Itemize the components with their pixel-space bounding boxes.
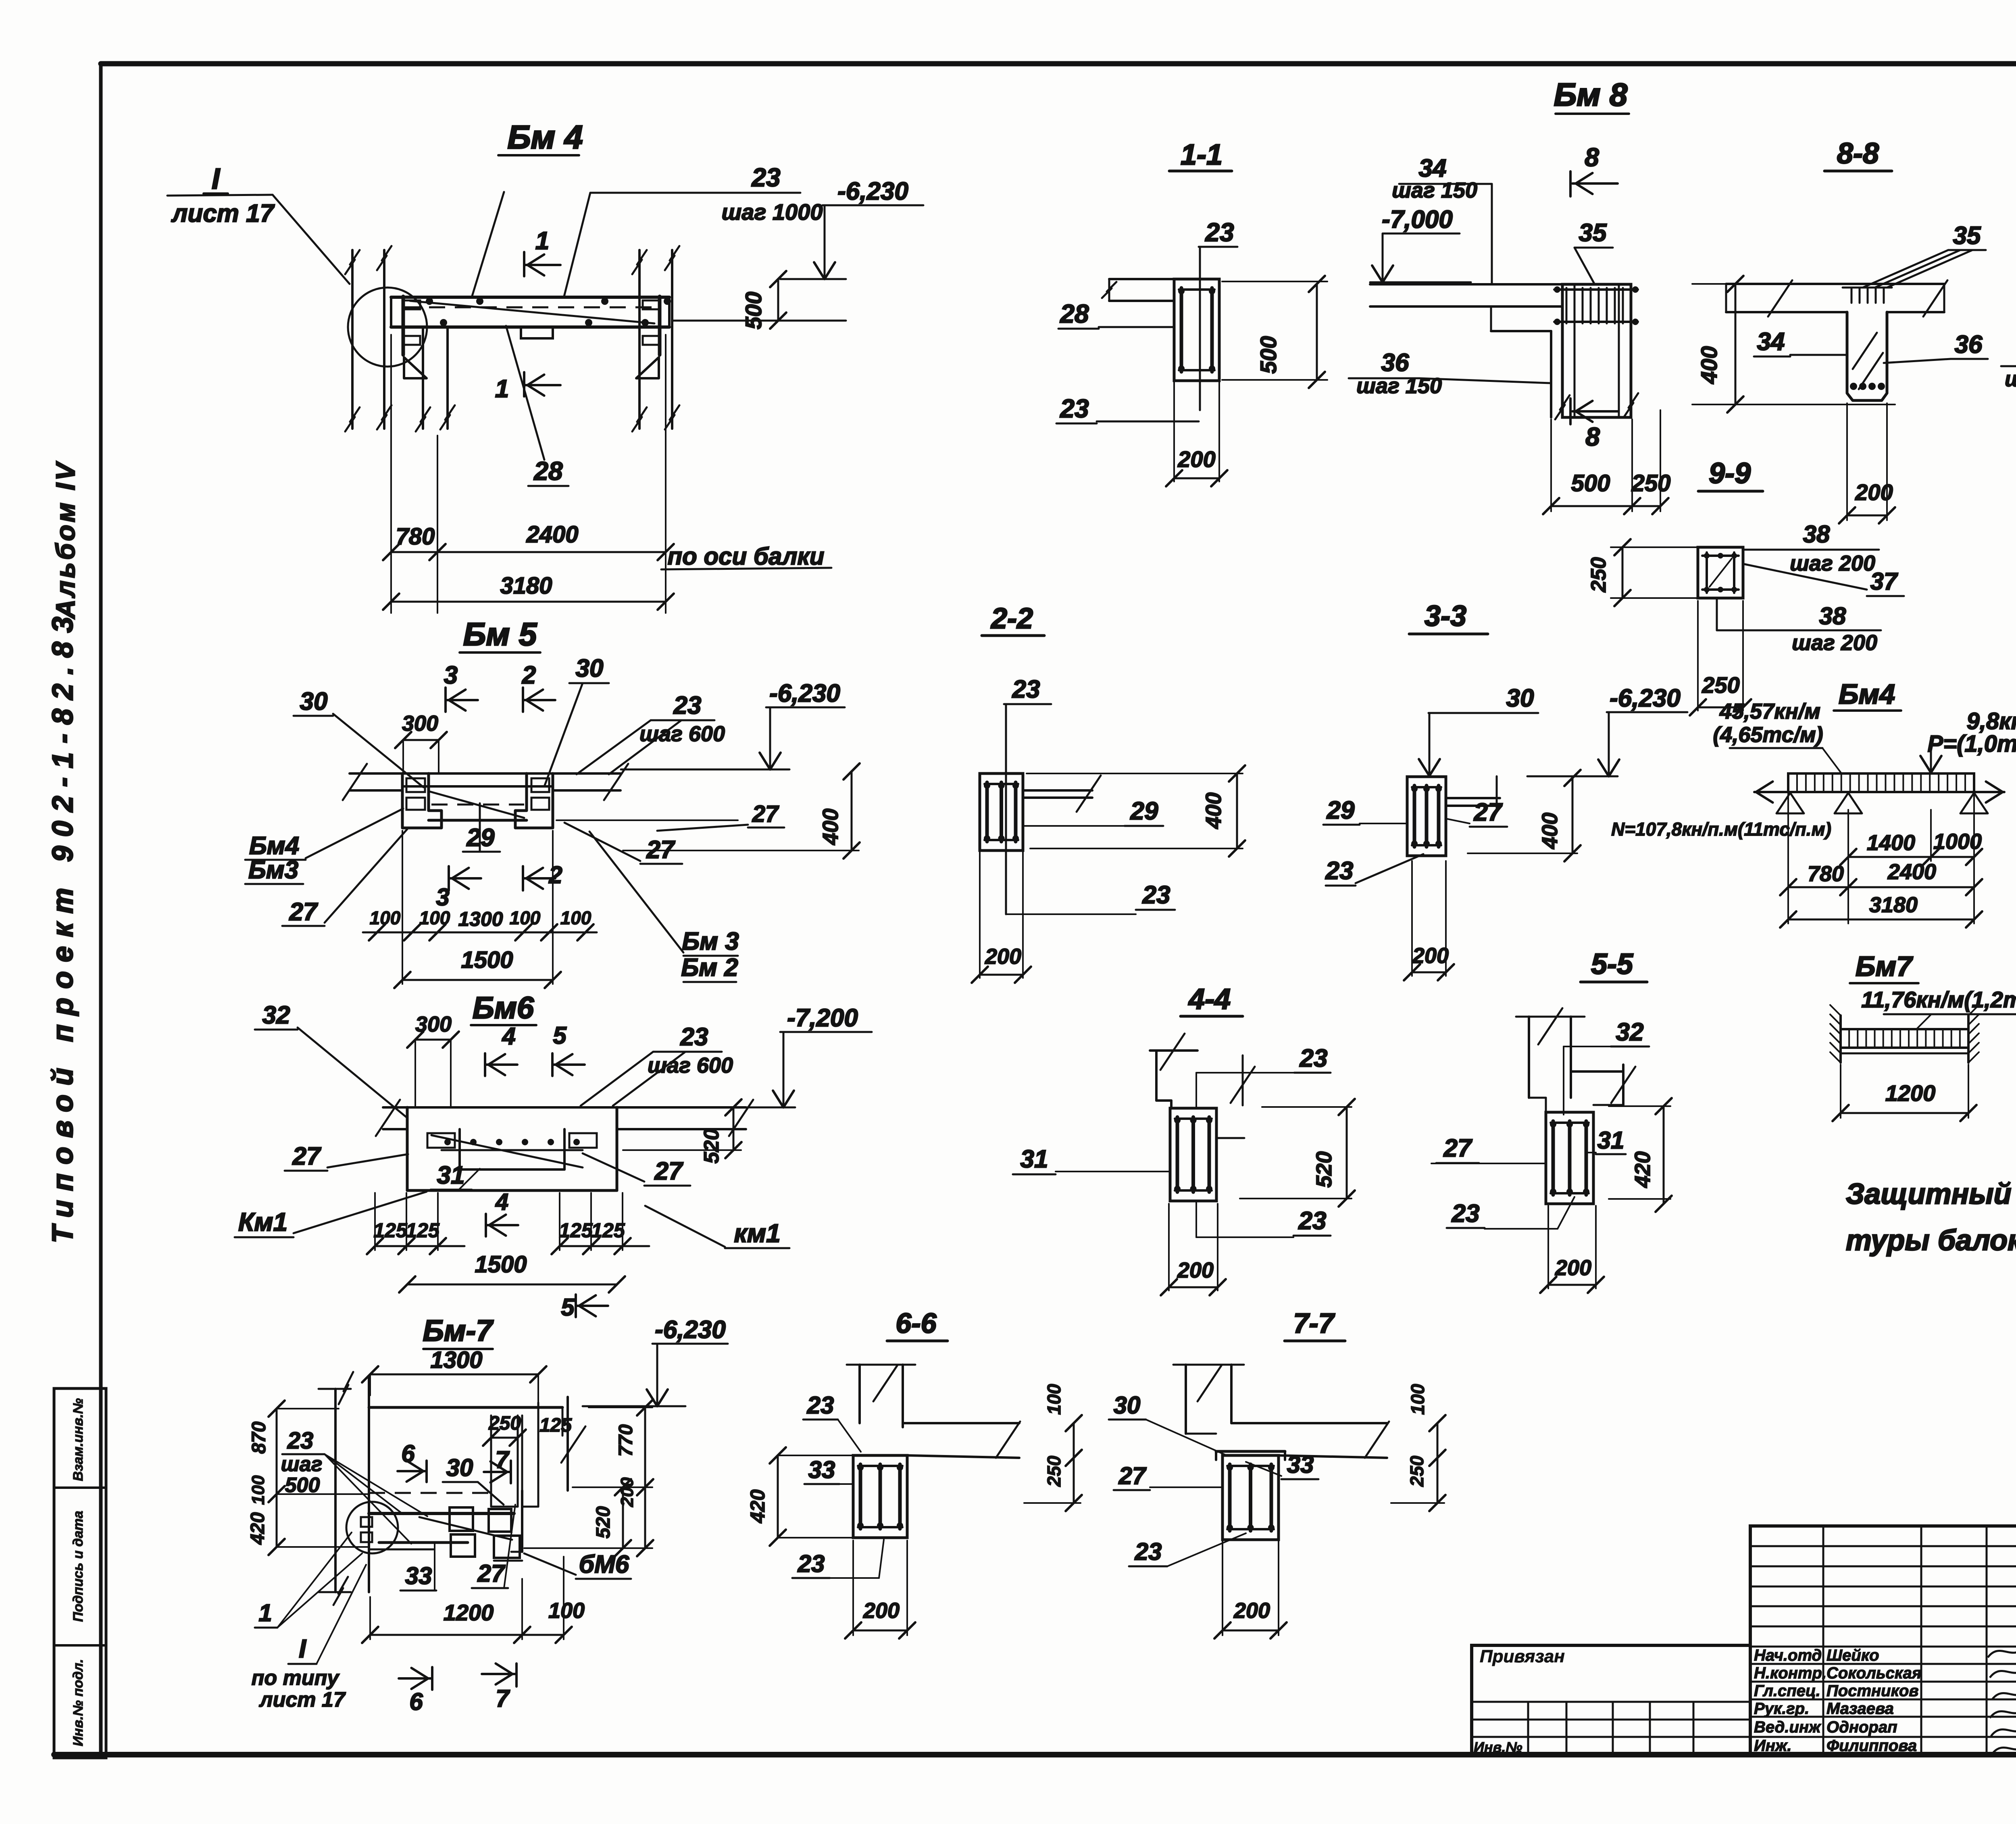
svg-text:7: 7: [496, 1685, 510, 1712]
svg-text:29: 29: [1327, 796, 1355, 824]
svg-text:23: 23: [287, 1428, 314, 1454]
svg-text:8-8: 8-8: [1837, 138, 1879, 170]
svg-text:11,76кн/м(1,2тс/м): 11,76кн/м(1,2тс/м): [1861, 987, 2016, 1012]
svg-text:34: 34: [1757, 328, 1785, 356]
svg-text:200: 200: [1177, 446, 1215, 472]
label 35 of 8-8: [1863, 222, 1986, 288]
dimension 300 of Бм6: [407, 1012, 459, 1106]
svg-text:780: 780: [396, 523, 435, 550]
svg-text:-7,000: -7,000: [1382, 206, 1453, 233]
svg-text:30: 30: [446, 1454, 473, 1481]
title section 8-8: [1824, 138, 1892, 171]
svg-text:шаг: шаг: [281, 1453, 323, 1476]
svg-text:400: 400: [818, 809, 843, 845]
section mark 3 top of Бм5: [444, 661, 478, 712]
label 1 of Бм-7: [255, 1532, 362, 1628]
svg-text:250: 250: [1406, 1455, 1427, 1487]
svg-text:45,57кн/м: 45,57кн/м: [1719, 699, 1820, 723]
level mark -7,000: [1370, 206, 1471, 282]
svg-text:27: 27: [289, 898, 318, 926]
label 27 of 7-7: [1114, 1462, 1223, 1490]
column section of 5-5: [1546, 1112, 1593, 1204]
column of Бм8 with rebar: [1554, 284, 1639, 419]
svg-text:100: 100: [560, 907, 591, 928]
svg-text:2400: 2400: [1887, 860, 1936, 884]
svg-text:-6,230: -6,230: [837, 177, 908, 205]
svg-text:200: 200: [985, 944, 1021, 969]
label 23 top of 1-1: [1199, 218, 1237, 410]
dimensions 770 200 520 right of Бм-7: [524, 1399, 653, 1556]
svg-text:3: 3: [436, 884, 449, 911]
beam body of Бм6: [407, 1107, 617, 1190]
svg-text:лист 17: лист 17: [171, 200, 275, 227]
dimension 200 of 1-1: [1166, 381, 1227, 486]
svg-text:27: 27: [1474, 798, 1503, 826]
label 23 top of 4-4: [1196, 1044, 1331, 1107]
svg-text:23: 23: [1060, 394, 1089, 423]
svg-text:200: 200: [1233, 1599, 1270, 1623]
label 37 of 9-9: [1745, 564, 1904, 596]
section mark 7 bottom of Бм-7: [482, 1663, 516, 1712]
svg-text:27: 27: [292, 1142, 321, 1170]
dimension 400 of 2-2: [1027, 765, 1245, 857]
svg-text:520: 520: [593, 1506, 614, 1538]
dimension 1500 of Бм5: [394, 831, 561, 988]
svg-text:520: 520: [1312, 1151, 1336, 1188]
svg-text:4-4: 4-4: [1188, 983, 1231, 1015]
svg-text:Постников: Постников: [1826, 1682, 1918, 1700]
label 31 of 5-5: [1586, 1127, 1626, 1154]
svg-text:Подпись и дата: Подпись и дата: [71, 1511, 86, 1622]
inner support lines below Бм4: [416, 327, 455, 432]
level mark -6,230 on Бм4: [780, 177, 923, 279]
step notch left of Бм8 column: [1491, 306, 1551, 417]
svg-text:780: 780: [1808, 862, 1844, 886]
dimension 200 of 6-6: [845, 1540, 915, 1638]
svg-text:870: 870: [248, 1422, 270, 1454]
dimension 200 of 3-3: [1404, 861, 1454, 980]
beam stem of 8-8: [1843, 288, 1892, 400]
svg-text:1-1: 1-1: [1181, 139, 1223, 171]
svg-text:23: 23: [673, 692, 702, 719]
svg-text:200: 200: [1177, 1258, 1214, 1282]
svg-text:Сокольская: Сокольская: [1826, 1664, 1921, 1682]
svg-text:125: 125: [539, 1415, 572, 1436]
svg-text:Вед.инж: Вед.инж: [1754, 1718, 1822, 1736]
label 29 of 2-2: [1024, 797, 1163, 826]
svg-text:3: 3: [444, 661, 458, 689]
section mark 4 top of Бм6: [485, 1023, 517, 1076]
svg-text:1: 1: [258, 1599, 272, 1626]
label 30 of 3-3: [1419, 684, 1538, 776]
leader 23 шаг 1000 on Бм4: [472, 163, 823, 297]
svg-text:Бм3: Бм3: [248, 856, 298, 884]
svg-text:шаг 600: шаг 600: [648, 1053, 733, 1078]
label 27 far right of Бм5: [657, 801, 784, 831]
svg-text:400: 400: [1696, 346, 1722, 384]
svg-text:37: 37: [1870, 568, 1898, 595]
label 33 of Бм-7: [400, 1544, 436, 1591]
label 36 of 8-8: [1884, 331, 1988, 363]
label 23 bottom of 4-4: [1196, 1201, 1331, 1237]
svg-text:400: 400: [1538, 813, 1562, 849]
svg-text:Привязан: Привязан: [1480, 1647, 1565, 1666]
svg-text:400: 400: [1202, 792, 1226, 829]
bottom-left stamp column: [54, 1388, 106, 1758]
dimension 200 of 8-8: [1839, 403, 1895, 523]
svg-text:3-3: 3-3: [1425, 600, 1466, 632]
label 23 bottom of 2-2: [1006, 881, 1175, 914]
svg-text:Нач.отд: Нач.отд: [1754, 1647, 1822, 1664]
svg-text:шаг 200: шаг 200: [2005, 367, 2016, 391]
label 30 left of Бм5: [294, 688, 423, 787]
section mark 5 bottom of Бм6: [561, 1294, 608, 1321]
dimension row 100 100 1300 100 100 of Бм5: [363, 907, 597, 940]
svg-text:36: 36: [1955, 331, 1983, 359]
dimension 250 bottom of 9-9: [1690, 601, 1751, 715]
svg-text:35: 35: [1953, 222, 1981, 250]
svg-text:23: 23: [1300, 1044, 1328, 1072]
slab of 7-7: [1186, 1422, 1389, 1458]
svg-text:4: 4: [502, 1023, 515, 1050]
label 27 of Бм-7: [472, 1505, 515, 1588]
svg-text:30: 30: [1114, 1392, 1141, 1419]
svg-text:Бм4: Бм4: [249, 832, 299, 860]
svg-text:23: 23: [751, 163, 780, 192]
svg-text:33: 33: [808, 1456, 835, 1483]
bearing plate right end of Бм4: [636, 296, 660, 378]
svg-text:23: 23: [1325, 857, 1354, 885]
scheme Бм4 beam with load: [1754, 773, 2016, 813]
slab of Бм8: [1370, 284, 1562, 306]
svg-text:I: I: [299, 1634, 306, 1663]
svg-text:шаг 200: шаг 200: [1790, 551, 1875, 575]
notch 250 125 of Бм-7: [483, 1403, 572, 1507]
dimensions 870 100 420 left of Бм-7: [247, 1401, 368, 1555]
svg-text:Однорап: Однорап: [1826, 1718, 1897, 1736]
svg-text:1: 1: [535, 227, 549, 255]
left margin text Типовой проект 902-1-82.83: [47, 608, 79, 1243]
svg-text:1300: 1300: [430, 1347, 482, 1373]
scheme Бм7 load label: [1861, 987, 2016, 1028]
svg-text:-6,230: -6,230: [769, 680, 840, 707]
svg-text:420: 420: [247, 1512, 269, 1545]
title section 6-6: [887, 1307, 948, 1341]
svg-text:Мазаева: Мазаева: [1826, 1700, 1894, 1718]
svg-text:бМ6: бМ6: [579, 1551, 629, 1578]
svg-text:Инв.№ подл.: Инв.№ подл.: [71, 1659, 86, 1747]
svg-text:2-2: 2-2: [990, 602, 1033, 635]
detail circle on Бм4 left end: [348, 288, 427, 367]
svg-text:7-7: 7-7: [1293, 1307, 1335, 1339]
svg-text:100: 100: [548, 1599, 585, 1623]
svg-text:3180: 3180: [500, 573, 552, 599]
svg-text:Шейко: Шейко: [1826, 1647, 1879, 1664]
svg-text:5: 5: [553, 1022, 567, 1049]
slab of Бм6: [376, 1100, 753, 1136]
svg-text:-6,230: -6,230: [655, 1316, 726, 1344]
label I по типу лист 17 of Бм-7: [252, 1565, 366, 1711]
svg-text:27: 27: [752, 801, 779, 827]
svg-text:2: 2: [522, 661, 536, 689]
svg-text:Гл.спец.: Гл.спец.: [1754, 1682, 1820, 1700]
svg-text:35: 35: [1579, 219, 1607, 247]
label 31 of 4-4: [1013, 1145, 1170, 1174]
label 23 bottom of 7-7: [1129, 1533, 1246, 1566]
title section 1-1: [1169, 139, 1232, 171]
svg-text:2: 2: [548, 861, 562, 888]
column section of 6-6: [853, 1455, 907, 1538]
wall of 5-5: [1516, 1008, 1585, 1112]
label 31 of Бм6: [431, 1161, 480, 1190]
label 27 left of Бм5: [282, 829, 407, 926]
svg-text:32: 32: [1616, 1018, 1644, 1046]
svg-text:Защитный слой бетона для рабоч: Защитный слой бетона для рабочей арма-: [1846, 1178, 2016, 1210]
svg-text:23: 23: [1205, 218, 1234, 247]
svg-text:шаг 200: шаг 200: [1792, 631, 1877, 655]
leader 28 on Бм4: [506, 326, 569, 486]
scheme Бм4 dimensions 1400 1000: [1840, 830, 1982, 865]
label 23 top of 6-6: [803, 1392, 861, 1452]
section mark 7 top of Бм-7: [484, 1446, 511, 1483]
title section 7-7: [1285, 1307, 1345, 1341]
svg-text:шаг 150: шаг 150: [1356, 374, 1442, 398]
svg-text:200: 200: [1412, 944, 1449, 968]
svg-text:шаг 150: шаг 150: [1392, 178, 1477, 202]
section mark 8 top: [1570, 143, 1618, 196]
label Бм3 Бм2 right: [589, 832, 739, 982]
label 30 top right of Бм5: [544, 655, 609, 786]
label 23 шаг 500 of Бм-7: [281, 1428, 427, 1544]
right end blocks of Бм-7: [450, 1490, 522, 1561]
label 27 right of Бм5: [564, 823, 682, 864]
svg-text:32: 32: [262, 1001, 290, 1029]
step right of 5-5: [1571, 1065, 1635, 1105]
label 23 bottom of 5-5: [1447, 1197, 1574, 1229]
dimension 300 of Бм5: [395, 711, 447, 773]
svg-text:8: 8: [1585, 422, 1600, 451]
label 32 left of Бм6: [255, 1001, 407, 1118]
label 34 шаг 150: [1392, 154, 1492, 284]
scheme Бм4 axial force label: [1611, 819, 1831, 840]
dimension row 125 125 125 125 of Бм6: [367, 1193, 649, 1254]
svg-text:Бм-7: Бм-7: [423, 1314, 494, 1347]
svg-text:200: 200: [1855, 479, 1893, 505]
wall of 7-7: [1173, 1365, 1244, 1434]
svg-text:31: 31: [437, 1161, 465, 1189]
svg-text:770: 770: [615, 1424, 637, 1457]
svg-text:33: 33: [1287, 1451, 1314, 1478]
title Бм4: [498, 119, 583, 156]
svg-text:250: 250: [1631, 470, 1671, 496]
dimension 250 left of 9-9: [1587, 539, 1698, 606]
title block signature table: [1750, 1526, 2016, 1755]
label 27 of 3-3: [1446, 798, 1507, 827]
label Бм4 Бм3 left: [245, 809, 403, 884]
svg-text:28: 28: [1060, 299, 1089, 328]
svg-text:8: 8: [1585, 143, 1599, 172]
label 35 on Бм8: [1574, 219, 1613, 284]
svg-text:38: 38: [1819, 602, 1846, 630]
svg-text:27: 27: [1118, 1462, 1147, 1489]
svg-text:100: 100: [419, 907, 450, 928]
svg-text:Бм 4: Бм 4: [507, 119, 583, 156]
svg-text:Типовой проект 902-1-82.83: Типовой проект 902-1-82.83: [47, 608, 79, 1243]
column section of 7-7: [1216, 1451, 1285, 1540]
svg-text:30: 30: [1506, 684, 1534, 712]
label 23 bottom of 6-6: [792, 1540, 884, 1578]
label 36 шаг 150: [1349, 349, 1550, 398]
slab of 6-6: [903, 1422, 1020, 1458]
svg-text:36: 36: [1381, 349, 1409, 377]
svg-text:Рук.гр.: Рук.гр.: [1754, 1700, 1809, 1718]
svg-text:100: 100: [248, 1475, 268, 1505]
column section of 4-4: [1170, 1108, 1216, 1201]
svg-text:1500: 1500: [475, 1251, 527, 1278]
title Бм5: [460, 616, 540, 652]
svg-text:38: 38: [1803, 521, 1830, 548]
svg-text:100: 100: [1407, 1384, 1428, 1415]
svg-text:-7,200: -7,200: [787, 1004, 858, 1032]
dimension 400 of 8-8: [1692, 276, 1895, 413]
dimension 400 of 3-3: [1468, 770, 1581, 861]
svg-text:1400: 1400: [1867, 831, 1915, 855]
svg-text:6-6: 6-6: [896, 1307, 937, 1339]
svg-text:125: 125: [406, 1219, 440, 1242]
svg-text:P=(1,0тс): P=(1,0тс): [1928, 731, 2016, 757]
level mark -6,230 of 3-3: [1527, 684, 1687, 776]
svg-text:по типу: по типу: [252, 1666, 340, 1690]
dimension 520 of 4-4: [1240, 1099, 1355, 1207]
column section of 2-2: [980, 773, 1023, 851]
svg-text:км1: км1: [734, 1219, 780, 1248]
title Бм6: [471, 991, 536, 1025]
title section 2-2: [982, 602, 1044, 636]
svg-text:Бм7: Бм7: [1856, 951, 1913, 982]
level mark -6,230 of Бм-7: [583, 1316, 728, 1406]
label 29 of Бм5: [463, 803, 500, 852]
level mark -6,230 of Бм5: [621, 680, 845, 769]
svg-text:по оси балки: по оси балки: [668, 543, 825, 570]
label 33 of 6-6: [804, 1456, 853, 1484]
svg-text:125: 125: [559, 1219, 593, 1242]
left margin text Альбом IV: [50, 461, 80, 620]
svg-text:Филиппова: Филиппова: [1826, 1737, 1917, 1755]
label 34 of 8-8: [1754, 328, 1847, 356]
level mark -7,200 of Бм6: [745, 1004, 872, 1107]
svg-text:31: 31: [1020, 1145, 1048, 1173]
svg-text:28: 28: [533, 457, 563, 486]
wall right of Бм4: [632, 246, 679, 432]
bearing plate left end of Бм4: [403, 296, 427, 378]
svg-text:31: 31: [1597, 1127, 1624, 1154]
svg-text:250: 250: [1043, 1455, 1064, 1487]
dimension 400 right of Бм5: [556, 763, 860, 859]
slab of 8-8: [1726, 280, 1947, 317]
title section 4-4: [1181, 983, 1243, 1016]
svg-text:Н.контр.: Н.контр.: [1754, 1664, 1826, 1682]
dimension 420 of 5-5: [1609, 1098, 1672, 1212]
dimensions 100 250 right of 7-7: [1391, 1384, 1445, 1511]
svg-text:23: 23: [680, 1023, 708, 1051]
slab of 1-1: [1102, 279, 1174, 301]
svg-text:300: 300: [402, 711, 438, 736]
title section 5-5: [1581, 948, 1647, 982]
left wall of Бм-7: [319, 1372, 369, 1605]
svg-text:Бм6: Бм6: [473, 991, 534, 1025]
label 23 of 3-3: [1325, 854, 1423, 886]
dimension 520 right of Бм6: [623, 1099, 741, 1163]
svg-text:23: 23: [1142, 881, 1170, 909]
scheme Бм4 dimension 3180: [1780, 794, 1982, 928]
svg-text:420: 420: [1631, 1151, 1655, 1188]
svg-text:5-5: 5-5: [1591, 948, 1633, 980]
dimension 200 of 4-4: [1161, 1204, 1226, 1295]
label по оси балки: [661, 543, 831, 570]
wall left of Бм4: [345, 246, 392, 432]
label 27 left of Бм6: [285, 1142, 408, 1171]
scheme Бм7 title: [1850, 951, 1918, 983]
section mark 6 bottom of Бм-7: [399, 1667, 432, 1715]
leader 28 of 1-1: [1058, 299, 1173, 329]
svg-text:5: 5: [561, 1294, 575, 1321]
label 32 of 5-5: [1564, 1018, 1649, 1115]
slab lines of 3-3: [1446, 776, 1500, 809]
svg-text:500: 500: [1571, 470, 1610, 496]
label 33 of 7-7: [1246, 1451, 1318, 1479]
label 23 шаг 600 of Бм5: [577, 692, 725, 774]
section mark 6 top of Бм-7: [398, 1440, 427, 1482]
title Бм-7: [423, 1314, 494, 1349]
svg-text:I: I: [212, 163, 221, 195]
svg-text:Бм 2: Бм 2: [681, 954, 738, 982]
section mark 2 top of Бм5: [522, 661, 555, 712]
leader 23 bottom of 1-1: [1056, 394, 1199, 423]
section mark 3 bottom of Бм5: [436, 866, 481, 911]
section mark 5 top of Бм6: [552, 1022, 585, 1076]
svg-text:23: 23: [1012, 675, 1040, 703]
beam body of Бм-7: [369, 1513, 514, 1549]
svg-text:200: 200: [1555, 1256, 1591, 1280]
svg-text:125: 125: [373, 1219, 408, 1242]
svg-text:250: 250: [488, 1413, 521, 1434]
svg-text:30: 30: [300, 688, 328, 715]
svg-text:27: 27: [654, 1157, 683, 1185]
svg-text:6: 6: [409, 1688, 423, 1715]
svg-text:9-9: 9-9: [1709, 457, 1751, 490]
svg-text:шаг 1000: шаг 1000: [722, 199, 823, 225]
label бМ6 of Бм-7: [524, 1551, 631, 1579]
dimension 200 of 5-5: [1540, 1206, 1604, 1293]
section mark 2 bottom of Бм5: [523, 861, 562, 890]
label 23 шаг 600 of Бм6: [581, 1023, 733, 1106]
title section 3-3: [1409, 600, 1488, 634]
title block attachment table Привязан: [1472, 1645, 1750, 1755]
dimension 1300 of Бм-7: [362, 1347, 546, 1403]
dimension 500 of 1-1: [1222, 276, 1327, 388]
svg-text:4: 4: [495, 1189, 508, 1215]
dimension 500 right of Бм4: [673, 271, 846, 329]
label 27 right of Бм6: [583, 1153, 690, 1186]
title Бм8: [1554, 77, 1629, 114]
label 38 шаг 200 left of Км1: [2001, 338, 2016, 391]
svg-text:3180: 3180: [1869, 893, 1918, 917]
scheme Бм4 load labels: [1713, 699, 2016, 773]
title section 9-9: [1698, 457, 1763, 491]
svg-text:1200: 1200: [1885, 1080, 1936, 1106]
dimensions 500 250 of Бм8: [1543, 410, 1670, 514]
detail circle on Бм-7 left end: [346, 1502, 398, 1553]
